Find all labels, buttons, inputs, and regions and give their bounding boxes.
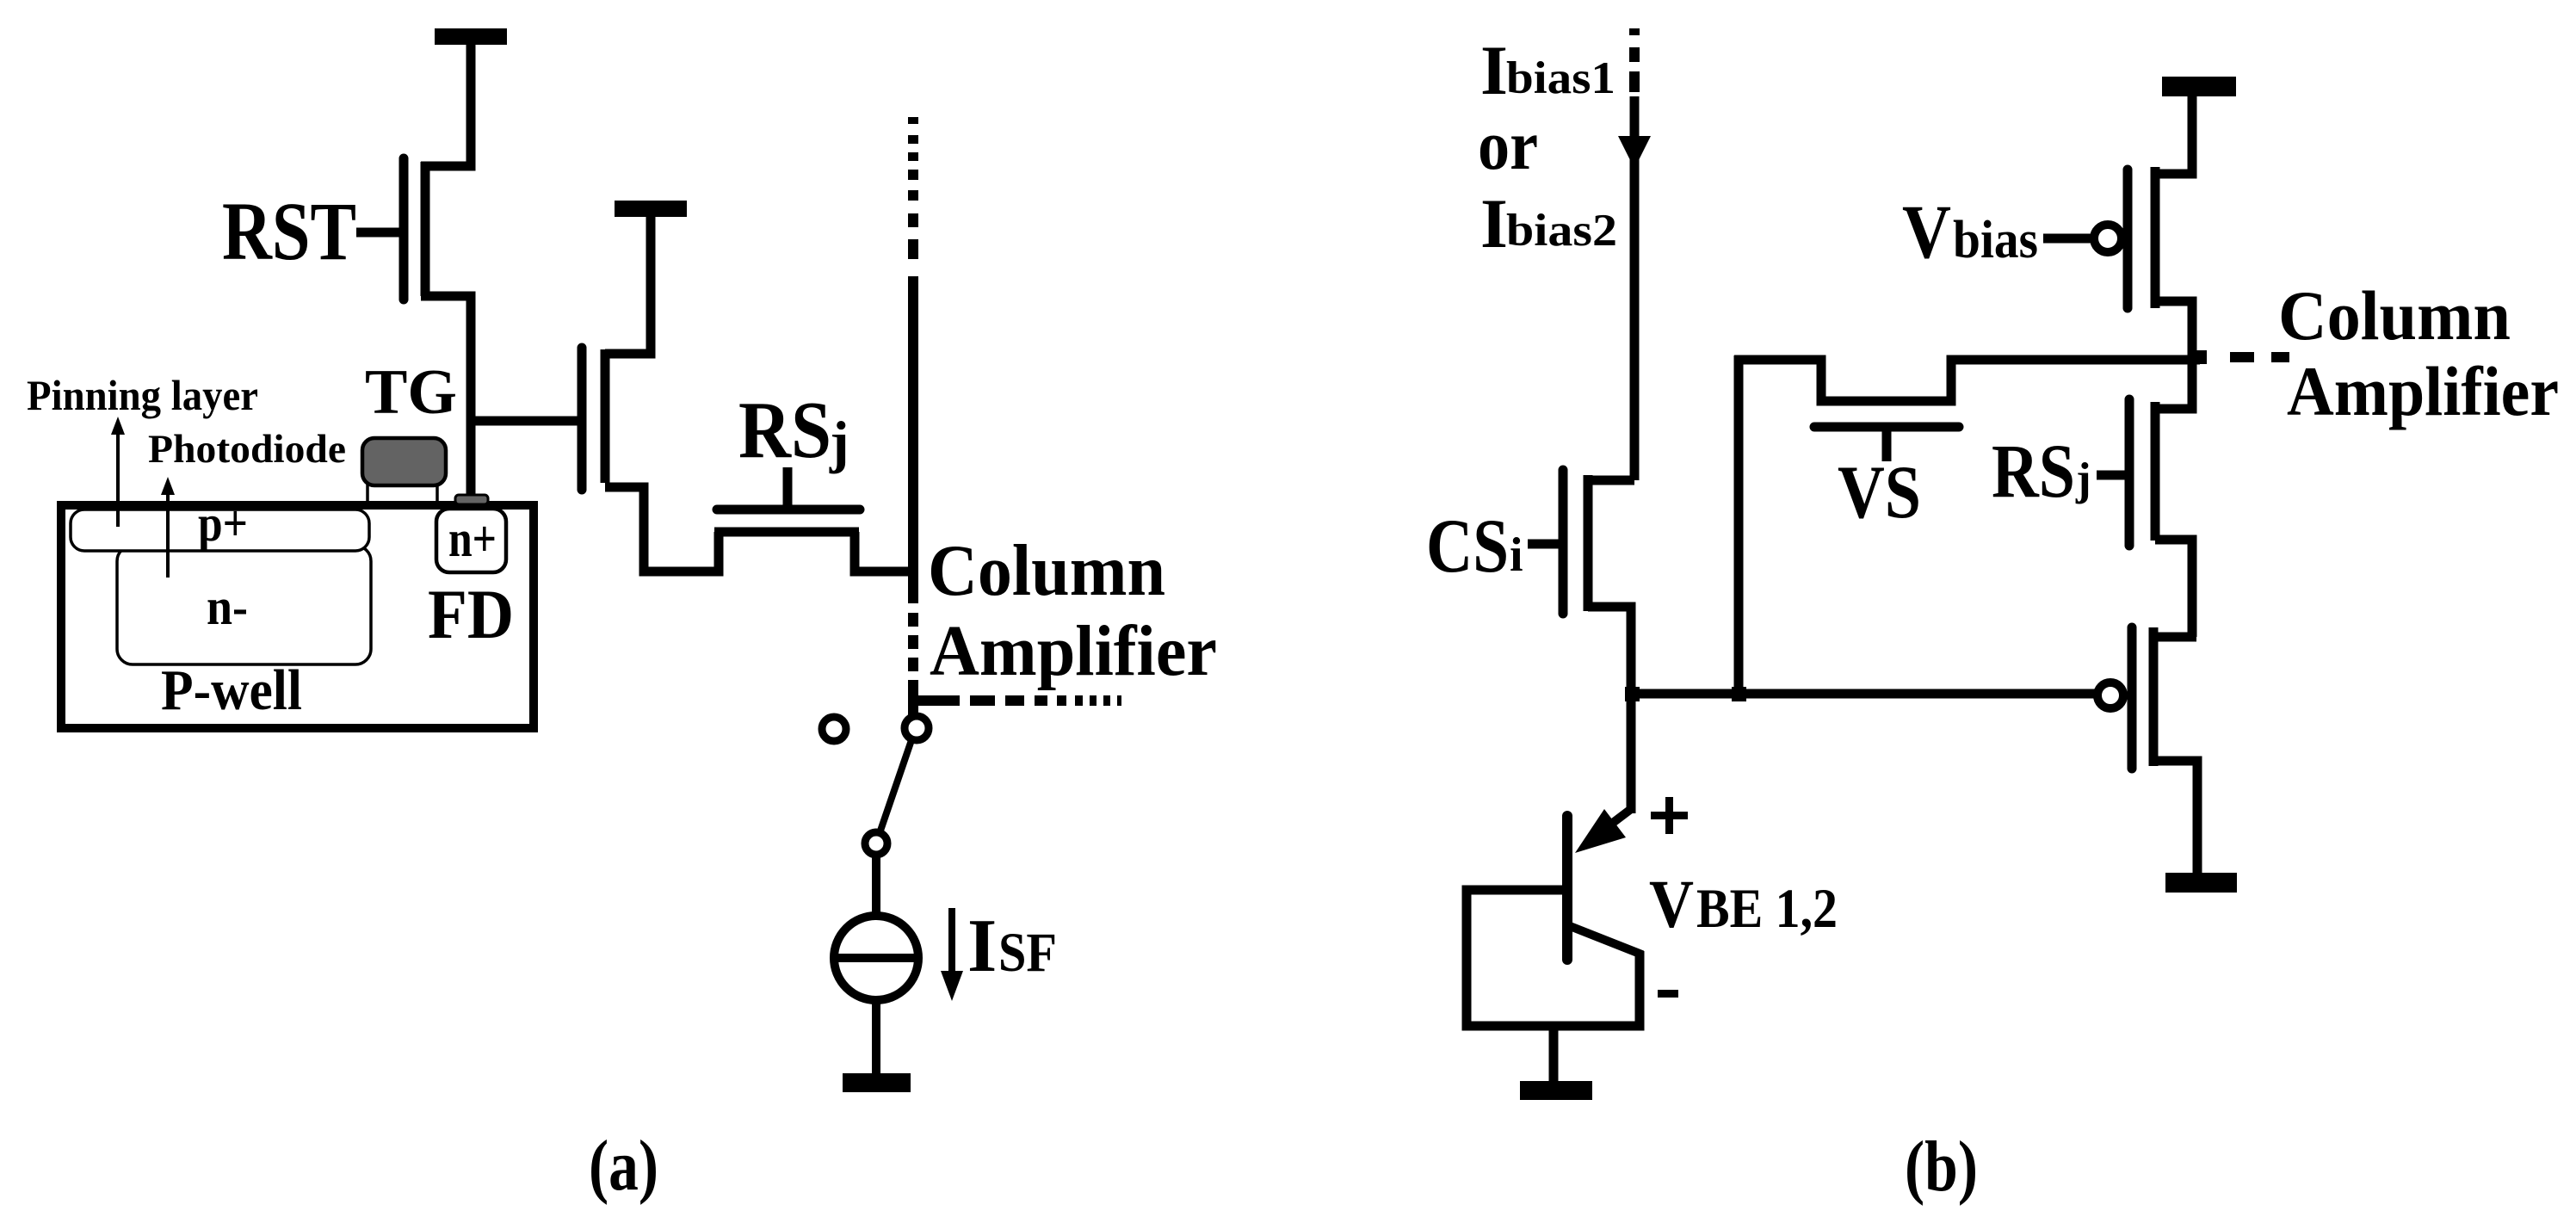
switch lower terminal circle [865,832,887,855]
svg-text:CS: CS [1426,504,1509,589]
label ISF [967,905,1057,988]
label RST [222,185,356,277]
label TG [365,357,457,428]
wire RST source to FD contact [421,296,471,497]
label Photodiode [148,427,346,472]
label RSj [738,386,849,475]
label VS [1838,451,1921,534]
P-well box [61,505,534,728]
transistor VS gate bar [1814,423,1959,432]
label Ibias2 [1480,184,1617,263]
wire VS branch with VS transistor channel [1734,360,2200,401]
svg-text:P-well: P-well [161,658,302,722]
transistor RST gate bar [399,158,409,300]
label Pinning layer [27,371,258,419]
svg-text:I: I [1480,31,1508,109]
svg-text:j: j [829,409,849,474]
transistor Vbias channel bar [2151,167,2160,308]
wire dashes to column amplifier (b) [2230,352,2289,362]
caption (a) [589,1126,658,1206]
label Amplifier (a) [930,611,1217,691]
column bus dashed segment [908,613,918,694]
svg-text:bias: bias [1953,211,2038,269]
wire Vbias source to output node [2155,301,2192,361]
transistor Vbias gate lead [2043,234,2094,244]
label n+ [448,510,497,567]
svg-text:BE 1,2: BE 1,2 [1696,878,1838,940]
wire RSj source to column line [855,532,913,571]
TG gate electrode [362,438,446,485]
svg-text:SF: SF [998,922,1057,984]
label Vbias [1902,190,2038,275]
svg-text:V: V [1649,868,1694,942]
VDD supply bar (RST drain) [435,28,507,45]
p+ pinning layer region [71,510,369,551]
svg-text:n-: n- [207,578,248,635]
svg-text:RS: RS [738,386,831,475]
transistor Q1 BJT collector [1570,926,1640,1030]
wire base-collector loop [1467,890,1640,1026]
current source ISF circle [832,916,920,1000]
svg-text:Pinning layer: Pinning layer [27,371,258,419]
svg-text:Column: Column [2278,276,2511,355]
transistor CSi channel bar [1584,475,1593,611]
Ibias dotted feed [1629,28,1640,92]
label Amplifier (b) [2287,352,2559,430]
label P-well [161,658,302,722]
wire output node to RSj(b) drain [2155,357,2192,409]
svg-text:or: or [1478,106,1538,184]
current direction arrow ISF [941,908,963,1001]
svg-text:I: I [1480,184,1508,263]
label Ibias1 [1480,31,1615,109]
switch pivot terminal circle [905,716,929,740]
VDD supply bar (b) [2162,77,2236,96]
transistor Q1 BJT bar [1562,816,1572,960]
column bus stub to switch [908,694,918,716]
node output junction dot [2193,350,2207,364]
wire node up to VS branch [1734,355,1744,694]
svg-text:RST: RST [222,185,356,277]
wire mirror transistor drain lead [2153,633,2196,642]
wire mirror source to ground [2153,761,2197,873]
label minus [1658,990,1678,998]
ground (b right) [2165,873,2237,893]
svg-text:Column: Column [928,530,1165,611]
node junction dot 2 [1732,687,1746,701]
transistor SF channel bar [601,349,610,483]
wire CSi source down to node [1588,607,1631,694]
TG gate oxide sides [368,484,437,508]
svg-text:I: I [967,905,997,988]
label Column (b) [2278,276,2511,355]
label VBE 1,2 [1649,868,1838,942]
ground (b left) [1520,1081,1592,1100]
transistor mirror gate bubble [2097,683,2123,708]
label RSj (b) [1992,429,2091,514]
caption (b) [1905,1127,1978,1207]
switch arm [880,740,911,831]
node junction dot 1 [1625,687,1640,701]
column bus dotted top [908,117,918,259]
pinning layer arrow [111,417,125,527]
current arrow Ibias [1618,136,1651,169]
label or [1478,106,1538,184]
wire RSj(b) source to mirror drain [2155,540,2192,637]
transistor Vbias gate bubble [2094,225,2122,252]
transistor RSj channel bar [714,528,859,537]
svg-text:Amplifier: Amplifier [2287,352,2559,430]
label CSi [1426,504,1523,589]
label FD [428,575,514,653]
transistor Vbias gate bar [2123,170,2133,308]
n+ floating diffusion region [436,509,506,572]
transistor Q1 BJT emitter with arrow [1575,809,1631,853]
transistor CSi gate lead [1528,540,1559,549]
wire VDD to RST drain [421,45,471,166]
svg-text:(b): (b) [1905,1127,1978,1207]
svg-text:bias2: bias2 [1506,206,1617,256]
wire node down to BJT emitter [1627,694,1636,813]
transistor SF gate bar [578,348,587,490]
label p+ [198,495,248,552]
wire VDD to SF drain [605,217,651,354]
transistor RST gate lead [356,228,399,238]
wire Ibias to CSi drain [1588,96,1634,480]
label Column (a) [928,530,1165,611]
ground (a) [843,1073,911,1092]
svg-text:RS: RS [1992,429,2075,514]
transistor mirror channel bar [2149,627,2159,766]
column bus solid segment [908,276,918,603]
svg-text:p+: p+ [198,495,248,552]
transistor VS gate lead [1882,431,1892,461]
transistor RSj(b) channel bar [2151,402,2160,541]
label n- [207,578,248,635]
svg-text:V: V [1902,190,1951,275]
svg-text:(a): (a) [589,1126,658,1206]
svg-text:FD: FD [428,575,514,653]
svg-text:Photodiode: Photodiode [148,427,346,472]
svg-text:bias1: bias1 [1506,53,1615,103]
transistor CSi gate bar [1559,470,1568,614]
wire switch to current source [872,855,880,914]
svg-text:VS: VS [1838,451,1921,534]
svg-text:TG: TG [365,357,457,428]
transistor RSj(b) gate bar [2125,399,2134,546]
svg-text:j: j [2075,454,2091,504]
photodiode arrow [161,477,175,578]
wire loop to ground [1549,1026,1559,1083]
wire dashed to column amplifier (a) [914,695,1121,706]
node FD gate branch wire [471,417,578,426]
wire VDD to Vbias transistor drain [2155,96,2192,174]
svg-text:i: i [1510,528,1523,582]
svg-text:Amplifier: Amplifier [930,611,1217,691]
transistor RST channel bar [421,162,430,296]
switch open terminal circle [822,717,846,741]
transistor RSj(b) gate lead [2097,471,2126,480]
n- photodiode region [117,546,371,664]
transistor mirror gate bar [2128,627,2137,769]
VDD supply bar (SF drain) [615,201,687,217]
wire node to mirror gate (long horizontal) [1631,689,2097,699]
transistor RSj gate bar [717,505,860,515]
wire SF source to RSj drain [605,487,719,571]
FD contact [455,495,488,504]
transistor RSj gate lead [783,467,793,505]
label plus [1651,797,1688,834]
svg-text:n+: n+ [448,510,497,567]
wire current source to ground [872,1000,880,1076]
